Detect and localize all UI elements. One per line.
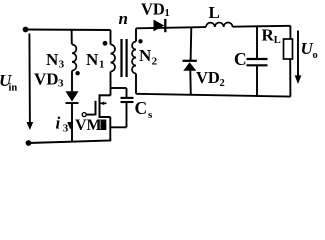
svg-text:C: C xyxy=(234,49,247,69)
svg-text:R: R xyxy=(262,26,275,45)
svg-text:i: i xyxy=(56,114,61,133)
svg-text:L: L xyxy=(274,35,281,46)
svg-text:VD: VD xyxy=(196,68,220,87)
svg-text:N: N xyxy=(86,50,99,69)
svg-text:2: 2 xyxy=(220,78,225,89)
svg-text:in: in xyxy=(9,83,18,94)
svg-text:1: 1 xyxy=(165,8,170,19)
svg-text:3: 3 xyxy=(63,123,69,135)
svg-text:VD: VD xyxy=(141,0,165,19)
svg-text:1: 1 xyxy=(99,58,105,70)
svg-text:VM: VM xyxy=(75,117,102,134)
svg-text:N: N xyxy=(139,46,152,65)
svg-text:VD: VD xyxy=(34,70,59,89)
svg-text:C: C xyxy=(135,98,148,118)
svg-text:N: N xyxy=(46,50,59,69)
svg-text:3: 3 xyxy=(58,77,64,89)
svg-text:3: 3 xyxy=(59,58,65,70)
svg-text:s: s xyxy=(148,109,153,121)
svg-text:n: n xyxy=(119,9,128,28)
svg-text:2: 2 xyxy=(152,55,158,67)
svg-text:L: L xyxy=(209,3,220,22)
svg-text:o: o xyxy=(313,50,318,61)
